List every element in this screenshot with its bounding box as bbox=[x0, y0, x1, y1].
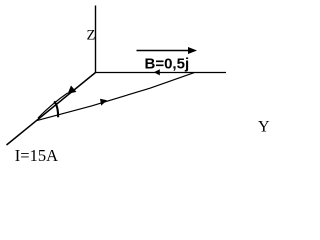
current arrowhead on side AC bbox=[100, 99, 107, 106]
B field vector arrow bbox=[137, 50, 191, 52]
x-axis arrowhead bbox=[68, 86, 77, 94]
z-axis bbox=[95, 6, 97, 73]
wire segment AO (double stroke beside x-axis) bbox=[38, 93, 68, 118]
x-axis line bbox=[7, 73, 96, 146]
svg-text:I=15A: I=15A bbox=[15, 146, 58, 165]
current arrowhead on top side CO (points left) bbox=[154, 69, 160, 75]
y-axis bbox=[95, 72, 226, 74]
wire side AC (lower shallow side of loop) bbox=[37, 73, 194, 121]
svg-text:B=0,5j: B=0,5j bbox=[145, 56, 190, 73]
angle arc at vertex A bbox=[54, 101, 58, 117]
svg-text:Z: Z bbox=[87, 28, 96, 44]
svg-text:Y: Y bbox=[258, 118, 270, 135]
